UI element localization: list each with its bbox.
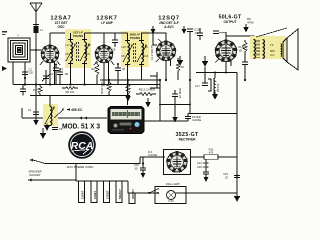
ground G1	[35, 85, 37, 121]
wire osc top	[49, 96, 51, 107]
wire tube3 cathode	[165, 61, 167, 81]
wire tube2 grid	[103, 33, 105, 46]
ground G6	[147, 98, 149, 102]
svg-text:Y: Y	[17, 34, 19, 38]
IF transformer T1 box	[65, 29, 91, 68]
loop antenna L1	[8, 38, 30, 62]
svg-text:C10: C10	[144, 55, 149, 58]
resistor R8	[62, 87, 78, 90]
svg-text:C1: C1	[50, 72, 54, 76]
svg-text:35Z5GT: 35Z5GT	[131, 189, 135, 199]
wire tube4 plate	[226, 36, 254, 41]
wire tube3 diode	[153, 33, 157, 45]
svg-text:& AVC: & AVC	[164, 25, 174, 29]
wire tube1 plate to IF1	[50, 32, 65, 34]
wire y104	[160, 104, 190, 106]
wire B+ x237	[236, 73, 238, 197]
coil L3	[85, 42, 87, 61]
svg-text:.02: .02	[238, 49, 243, 53]
socket box U5	[164, 150, 191, 175]
capacitor C3a	[53, 64, 59, 85]
wire tube4 cathode	[225, 62, 227, 73]
svg-text:TRANS: TRANS	[73, 34, 83, 38]
coil L5	[142, 43, 144, 62]
svg-text:OUTPUT: OUTPUT	[223, 20, 236, 24]
antenna	[30, 3, 42, 12]
node arrow A5	[204, 56, 206, 61]
wire avc y118	[22, 117, 107, 119]
node arrows on avc	[79, 117, 88, 120]
heater labels	[81, 189, 136, 199]
coil L6	[214, 73, 216, 95]
junction dots	[24, 83, 129, 85]
svg-text:C19: C19	[223, 172, 228, 176]
trimmer plates T1	[68, 40, 87, 64]
svg-text:RECTIFIER: RECTIFIER	[179, 138, 197, 142]
tube leg stubs	[40, 39, 231, 85]
ground G7	[234, 196, 240, 202]
resistor R1	[38, 85, 42, 96]
tube U4 50L6	[215, 40, 238, 63]
wire y113	[188, 113, 237, 115]
resistor R2	[95, 62, 99, 85]
svg-text:10 MEG: 10 MEG	[178, 88, 182, 98]
bus wire y95	[30, 95, 130, 97]
wire tube1 cathode	[49, 63, 51, 85]
trimmer arrows	[66, 45, 89, 61]
wire antenna lead	[35, 12, 37, 85]
wire heater bus y68	[196, 72, 237, 74]
capacitor C13	[187, 29, 193, 32]
capacitor C5 osc	[52, 128, 58, 130]
capacitor C17	[242, 58, 248, 80]
oscillator coil T4	[43, 104, 58, 126]
svg-text:12SQ7: 12SQ7	[106, 190, 110, 199]
wire loop bottom down	[12, 62, 14, 85]
photo of radio	[108, 107, 144, 134]
svg-text:CHOKE: CHOKE	[192, 118, 201, 122]
svg-text:455 KC: 455 KC	[71, 108, 83, 112]
coil L4	[128, 43, 130, 62]
capacitor C12	[185, 114, 191, 122]
label 455KC	[67, 108, 71, 110]
wire loop to lead	[30, 49, 42, 51]
svg-text:R8 150: R8 150	[216, 83, 220, 92]
svg-text:12SA7: 12SA7	[81, 190, 85, 199]
svg-text:SOCKET: SOCKET	[29, 173, 41, 177]
svg-text:12SK7: 12SK7	[93, 190, 97, 199]
svg-text:6.3V: 6.3V	[168, 199, 174, 203]
core	[134, 43, 136, 62]
svg-text:R8 22K: R8 22K	[66, 90, 75, 94]
coil T3 secondary	[263, 40, 265, 59]
svg-text:C16: C16	[134, 163, 139, 167]
node arrow A6	[179, 56, 181, 60]
wire C13 down	[189, 32, 191, 114]
tube U3 12SQ7	[156, 41, 177, 61]
capacitor C5	[33, 112, 39, 119]
svg-text:50L6GT: 50L6GT	[118, 189, 122, 199]
svg-text:DIAL LAMP: DIAL LAMP	[166, 182, 180, 186]
wire left down	[75, 164, 77, 182]
trimmer arrows	[123, 46, 146, 62]
edge mark	[2, 31, 7, 32]
volume wire y80	[100, 79, 160, 81]
trimmer plates T2	[125, 41, 144, 65]
tube U2 12SK7	[95, 45, 114, 64]
svg-text:14.2 VOLTS: 14.2 VOLTS	[150, 45, 154, 60]
ground diode left	[152, 26, 154, 29]
ground G2	[46, 124, 48, 126]
wire photo right	[144, 120, 188, 122]
resistor R3	[126, 80, 130, 96]
svg-text:C8: C8	[112, 48, 116, 52]
tube U5 35Z5	[166, 151, 188, 172]
svg-text:470K: 470K	[247, 21, 254, 25]
junction dots y80	[108, 79, 191, 81]
svg-text:115V POWER CORD: 115V POWER CORD	[67, 165, 94, 169]
capacitor C7	[115, 63, 121, 85]
svg-text:L19: L19	[122, 46, 127, 49]
svg-text:I-F AMP: I-F AMP	[101, 21, 114, 25]
capacitor C17	[202, 83, 208, 86]
svg-text:.05: .05	[134, 167, 138, 171]
ground G4	[172, 117, 178, 122]
node arrow left	[2, 66, 7, 71]
svg-text:V.C.: V.C.	[270, 53, 275, 57]
svg-text:220: 220	[29, 71, 34, 75]
choke L1 on lead	[34, 26, 39, 33]
ground diode right	[183, 26, 185, 29]
wires IF2	[104, 33, 166, 43]
capacitor C4a	[20, 85, 26, 96]
svg-text:.05: .05	[64, 72, 69, 76]
bus wire y84	[13, 84, 160, 86]
capacitor C15b	[197, 28, 203, 40]
volume control box	[150, 72, 160, 88]
core	[257, 40, 259, 58]
wire tube1 grid	[49, 33, 51, 46]
tube U1 12SA7	[41, 45, 60, 64]
capacitor C8	[112, 33, 118, 47]
resistor R6	[176, 58, 180, 80]
svg-text:R2: R2	[92, 67, 96, 71]
capacitor C18	[243, 40, 247, 58]
speaker	[283, 29, 298, 70]
svg-text:TRANS: TRANS	[130, 36, 140, 40]
wire left avc up	[21, 108, 23, 118]
capacitor C14	[172, 90, 178, 117]
svg-text:CHOKE: CHOKE	[148, 153, 157, 157]
ground G2b	[42, 128, 44, 133]
svg-text:R6: R6	[181, 65, 185, 69]
capacitor C4	[57, 68, 63, 85]
wire tube2 cathode	[103, 63, 105, 85]
wires IF1 top	[71, 33, 105, 42]
potentiometer R4	[107, 80, 111, 96]
capacitor C16 line cap	[140, 157, 146, 173]
IF transformer T2 box	[121, 31, 149, 67]
wires IF1 bottom	[71, 61, 85, 85]
coil L2	[71, 42, 73, 61]
power line 1	[33, 157, 140, 164]
switch S1	[148, 189, 159, 195]
capacitor C16 grid	[213, 31, 226, 41]
capacitor C2	[22, 72, 28, 75]
ground G3	[125, 96, 131, 101]
output transformer T3 box	[250, 36, 286, 59]
svg-text:MOD. 51 X 3: MOD. 51 X 3	[62, 122, 100, 131]
wire x160	[159, 80, 161, 121]
speaker frame line	[256, 28, 287, 37]
svg-text:OSC: OSC	[58, 25, 66, 29]
svg-text:T2: T2	[270, 43, 274, 47]
wire lamp right	[186, 192, 237, 194]
wire loop tap down	[24, 62, 26, 85]
trimmer C3	[42, 70, 50, 85]
svg-text:470: 470	[209, 151, 214, 155]
pilot lamp	[155, 187, 186, 204]
power line 2	[28, 179, 76, 181]
svg-text:C20 40MF: C20 40MF	[197, 165, 210, 169]
RCA logo	[68, 131, 96, 159]
speaker voice coil	[281, 44, 282, 56]
svg-text:L17: L17	[66, 44, 71, 47]
ground G5	[212, 94, 218, 100]
svg-text:C21 40MF: C21 40MF	[197, 161, 210, 165]
core	[77, 42, 79, 61]
heater string	[76, 181, 157, 204]
coil T3 primary	[254, 40, 256, 59]
svg-text:C17: C17	[195, 84, 200, 88]
svg-text:500K VOL: 500K VOL	[100, 81, 104, 94]
wire rect row	[140, 156, 165, 158]
svg-text:.05: .05	[122, 67, 126, 71]
